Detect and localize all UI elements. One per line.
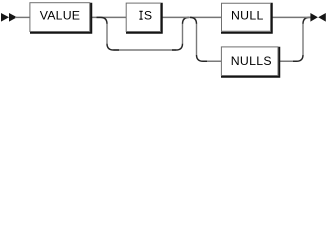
box keyword VALUE shadow xyxy=(30,3,92,34)
box keyword IS shadow xyxy=(126,3,163,34)
box keyword IS xyxy=(126,3,160,31)
box keyword NULL xyxy=(222,3,271,31)
svg-text:VALUE: VALUE xyxy=(40,9,80,23)
svg-text:NULL: NULL xyxy=(231,9,264,23)
start symbol (double arrowheads) xyxy=(1,13,17,22)
wire: VALUE to IS (main line through split) xyxy=(91,16,126,18)
box keyword NULL shadow xyxy=(221,3,273,34)
wire: branch down to NULLS row xyxy=(190,17,222,61)
wire: start to VALUE xyxy=(15,16,30,18)
svg-text:S: S xyxy=(144,9,152,23)
box keyword NULLS shadow xyxy=(221,47,280,78)
wire: NULL to end symbol xyxy=(272,16,312,18)
wire: IS bypass (optional skip path) xyxy=(97,17,190,50)
wire: NULLS back up to main line xyxy=(280,17,313,61)
label IS xyxy=(139,9,152,23)
svg-text:NULLS: NULLS xyxy=(231,54,272,68)
wire: IS to NULL (main line) xyxy=(162,16,222,18)
end symbol (bowtie arrowheads) xyxy=(310,13,325,22)
box keyword VALUE xyxy=(30,3,90,32)
box keyword NULLS xyxy=(221,47,278,76)
